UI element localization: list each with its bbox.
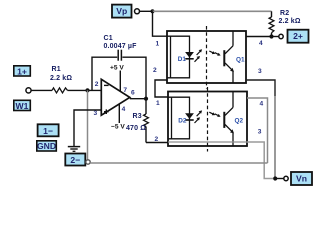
terminal box 2-: [65, 154, 85, 166]
wire +5V supply pin 7: [119, 71, 121, 92]
wire R3 to opto2 pin2: [146, 142, 168, 144]
svg-text:+5 V: +5 V: [110, 64, 124, 71]
svg-text:GND: GND: [37, 141, 56, 151]
op-amp U1: [101, 79, 130, 115]
terminal box GND: [37, 141, 57, 151]
svg-text:4: 4: [122, 106, 126, 113]
terminal circle 2+: [279, 34, 283, 38]
terminal circle 2-: [86, 160, 90, 164]
node R2/2+ junction: [269, 34, 273, 38]
svg-text:2: 2: [155, 136, 159, 143]
light arrows into Q1: [209, 51, 220, 56]
svg-text:−5 V: −5 V: [111, 124, 125, 131]
svg-text:470 Ω: 470 Ω: [126, 125, 146, 132]
wire opto1 pin2 to opto2 pin1: [155, 80, 168, 97]
LED D1: [185, 49, 202, 62]
svg-text:1−: 1−: [43, 126, 53, 136]
svg-text:0.0047 µF: 0.0047 µF: [104, 43, 138, 50]
svg-text:7: 7: [123, 87, 127, 94]
node output junction: [144, 97, 148, 101]
svg-text:1+: 1+: [17, 66, 27, 76]
wire +input to ground: [74, 110, 101, 146]
svg-text:Vp: Vp: [116, 6, 127, 16]
wire input node to R1: [31, 89, 52, 91]
svg-text:3: 3: [258, 129, 262, 136]
node Vn junction: [273, 176, 277, 180]
LED D2: [185, 110, 202, 123]
wire 2- probe vertical: [87, 90, 89, 159]
wire -5V supply pin 4: [118, 104, 120, 123]
resistor R2: [269, 11, 274, 36]
svg-text:3: 3: [258, 68, 262, 75]
svg-text:2: 2: [153, 67, 157, 74]
wire Vp down to opto pin 1: [153, 11, 168, 36]
terminal circle Vp: [135, 9, 140, 14]
capacitor C1 feedback loop: [92, 57, 117, 90]
svg-text:2+: 2+: [293, 31, 303, 41]
svg-text:3: 3: [94, 110, 98, 117]
wire 2- run to opto2 pin4: [90, 162, 267, 164]
svg-text:2−: 2−: [70, 155, 80, 165]
wire op-amp output: [130, 98, 146, 100]
svg-text:C1: C1: [104, 35, 113, 42]
svg-text:1: 1: [156, 100, 160, 107]
svg-text:4: 4: [260, 100, 264, 107]
wire opto1 pin3 to Vn vertical: [246, 80, 275, 96]
svg-text:D1: D1: [178, 56, 187, 63]
svg-text:Vn: Vn: [296, 174, 307, 184]
svg-text:2: 2: [95, 81, 99, 88]
terminal box 1-: [38, 124, 59, 136]
wire opto2 pin4 to 2- run: [247, 98, 268, 163]
wire Vn junction to circle: [275, 178, 283, 180]
svg-text:D2: D2: [178, 117, 187, 124]
phototransistor Q1: [224, 31, 234, 83]
optocoupler U3 outer box: [168, 92, 247, 147]
wire Vp to junction: [139, 10, 152, 12]
wire top run Vp to R2: [153, 10, 272, 12]
phototransistor Q2: [224, 92, 234, 147]
svg-text:2.2 kΩ: 2.2 kΩ: [279, 18, 301, 25]
diode D2 input rectangle: [168, 97, 190, 139]
svg-text:4: 4: [259, 40, 263, 47]
diode D1 input rectangle: [167, 36, 190, 78]
terminal box W1: [14, 100, 31, 111]
wire R1 to op-amp: [68, 89, 102, 91]
svg-text:2.2 kΩ: 2.2 kΩ: [50, 75, 72, 82]
svg-text:6: 6: [131, 89, 135, 96]
light arrows into Q2: [209, 112, 220, 117]
svg-text:R3: R3: [133, 113, 142, 120]
terminal box 2+: [288, 30, 309, 43]
optocoupler U2 outer box: [167, 31, 246, 83]
dashed separator U2: [206, 26, 208, 89]
wire opto1 pin4 to R2 junction: [246, 36, 272, 38]
wire junction to 2+ circle: [272, 36, 279, 38]
node Vp junction: [150, 9, 154, 13]
terminal box Vp: [112, 5, 132, 18]
dashed separator U3: [207, 87, 209, 152]
resistor R3: [144, 99, 149, 143]
svg-text:1: 1: [156, 40, 160, 47]
wire gray run under opto2: [168, 141, 247, 143]
wire opto2 pin3 to Vn: [247, 142, 273, 179]
resistor R1: [52, 88, 68, 93]
svg-text:Q2: Q2: [235, 118, 244, 125]
terminal box 1+: [14, 66, 31, 77]
svg-text:Q1: Q1: [236, 57, 245, 64]
ground: [68, 147, 80, 152]
capacitor C1 plates: [117, 50, 119, 61]
terminal circle 1+/W1: [26, 88, 31, 93]
terminal circle Vn: [284, 176, 288, 180]
node inverting input junction: [85, 88, 89, 92]
svg-text:R2: R2: [280, 10, 289, 17]
svg-text:R1: R1: [52, 66, 61, 73]
svg-text:W1: W1: [16, 101, 29, 111]
terminal box Vn: [291, 172, 312, 185]
